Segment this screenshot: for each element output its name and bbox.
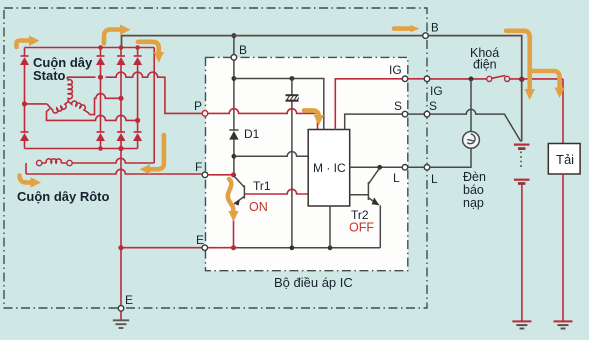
wire: F-node sense to M.IC (hump over resistor leg) [234,152,308,157]
stator coil phase C (lower-right coil) [68,101,89,114]
switch Khoá điện (ignition switch) [487,76,510,82]
wire: rectifier positive top rail [25,47,155,49]
node S (regulator edge) [402,111,408,117]
flow arrow down to brush wire [138,42,164,63]
svg-text:B: B [239,43,247,57]
flow arrow at rotor coil [20,176,42,188]
wire: switch to B junction and on to load [510,78,563,80]
junction phase C / leg2 [118,96,123,101]
svg-text:OFF: OFF [349,221,374,235]
wire: F to Tr1 collector junction [208,174,234,176]
svg-text:ON: ON [249,200,268,214]
flow arrow through Tr1 (ON) [228,179,239,222]
svg-text:S: S [429,99,437,113]
svg-text:L: L [431,172,438,186]
junction neutral / leg3 [135,118,140,123]
wire: M.IC ground pin [329,206,331,248]
wire: IG circuit from boundary to switch [430,78,487,80]
junction B / IG / battery / load [519,77,524,82]
junction resistor branch [290,76,295,81]
node B (regulator) [231,55,237,61]
flow arrow on B wire toward battery [394,25,420,32]
wire: rectifier left leg (phase B leg) [24,48,26,149]
flow arrow P wire into M.IC [304,110,324,125]
junction B / divider branch [232,76,237,81]
wire: rotor top wire to brush [37,158,155,163]
rotor field coil [46,159,61,163]
wire: neutral tap to leg 3 (humps over legs 1,2) [47,109,138,121]
wire: battery negative to ground [521,185,523,321]
wire: top branch to M.IC (B supply) [234,79,324,130]
wire: Tr2 emitter to E rail [379,205,381,248]
svg-text:P: P [194,99,202,113]
stator coil phase B (lower-left coil) [47,102,68,113]
wire: rectifier negative bottom rail [25,148,138,150]
diode bottom-left of rectifier [20,132,29,141]
diode top leg1 [96,56,105,65]
RIGHT SIDE [122,33,581,329]
svg-text:IG: IG [389,63,402,77]
junction phase A / leg1 [98,75,103,80]
ground E [113,320,129,328]
wire: ignition feed from B junction down to battery positive [521,79,523,141]
svg-text:D1: D1 [244,127,260,141]
junction dots on bottom rail [98,146,103,151]
wire: S sense to battery positive (hump over lamp wire) [430,109,521,141]
wire: IG feed into M.IC [335,79,402,130]
wire: B output line to battery [122,36,522,77]
junction Tr2 collector / L wire [377,165,382,170]
wire: lamp feed vertical [470,79,472,132]
slip ring right [67,160,72,165]
node IG (regulator edge) [402,76,408,82]
slip ring left [37,160,42,165]
op-amp block M.IC [308,130,350,207]
wire: phase C to leg 2 (hump over leg1) [90,94,121,115]
svg-text:Tr1: Tr1 [253,179,271,193]
svg-text:F: F [195,160,202,174]
wire: L link across boundary [408,166,424,168]
alternator enclosure dash-dot border [4,8,427,308]
wire: Tr1 base drive from M.IC (hump over resistor leg) [245,189,309,194]
flow arrow at stator left [17,36,40,48]
node E (regulator) [202,245,208,251]
junction B line tap [231,33,236,38]
wire: load to ground [562,174,564,321]
node L (regulator edge) [402,165,408,171]
battery [514,145,530,184]
IC BOX INTERNALS [202,33,430,250]
svg-text:Bộ điều áp IC: Bộ điều áp IC [274,275,353,290]
diode bottom leg3 [133,132,142,141]
junction phase B / left leg [22,101,27,106]
voltage regulator dashed box (Bộ điều áp IC) [206,57,408,270]
flow arrow into rotor wire [140,135,164,175]
svg-text:Cuộn dây Rôto: Cuộn dây Rôto [17,189,109,204]
wire: lamp bottom to L node [430,148,471,167]
wire: L lamp drive from M.IC [350,166,403,168]
flow arrow B wire down into battery [506,31,535,100]
diode top-left of rectifier [20,56,29,65]
junction D1 anode / M.IC sense [232,154,237,159]
ORANGE ARROWS [17,25,565,222]
node E (alternator case) [118,306,124,312]
wire: load feed down to Tai box [562,79,564,144]
wire: rotor left end down [25,163,27,174]
node B (alternator boundary) [423,33,429,39]
svg-text:IG: IG [430,84,443,98]
stator coil phase A (top coil) [67,77,72,101]
node F [202,172,208,178]
svg-text:điện: điện [473,58,497,72]
diode top leg2 [117,56,126,65]
wire: IG link across boundary [408,78,424,80]
wire: phase B to left leg [25,103,48,105]
svg-text:E: E [196,233,204,247]
svg-text:nạp: nạp [463,196,484,210]
wire: S sense into M.IC [345,114,403,129]
junction lamp feed [469,77,474,82]
junction resistor / E rail [290,245,295,250]
ground (battery) [512,321,531,328]
wire: rectifier leg 3 [137,48,139,149]
ground (load) [554,321,573,328]
wire: phase A tap to P (humps over legs 2,3 and brush wire) [67,72,203,113]
node L (alternator boundary) [424,165,430,171]
wire: rectifier leg 2 (goes down to E ground) [120,48,122,321]
diode bottom leg1 [96,132,105,141]
svg-text:B: B [431,23,439,35]
flow arrow branch into load [532,71,565,98]
wire: E rail dark part [238,247,380,249]
node IG (alternator boundary) [424,76,430,82]
node P [202,111,208,117]
junction F / D1 / Tr1 [231,172,236,177]
wire: B feed vertical inside regulator [233,36,235,175]
svg-text:Tải: Tải [556,152,574,167]
wire: Tr1 emitter to E rail [233,205,235,248]
STATOR-RECTIFIER [20,45,238,328]
wire: rectifier leg 1 [100,48,102,149]
diode top leg3 [133,56,142,65]
junction M.IC ground pin / E rail [328,245,333,250]
node S (alternator boundary) [424,111,430,117]
svg-text:L: L [393,171,400,185]
svg-text:Đèn: Đèn [463,170,486,184]
svg-text:M · IC: M · IC [313,161,346,175]
wire: rotor bottom wire to F terminal (hump over ground leg) [26,169,203,174]
flow arrow above rectifier [104,25,131,44]
svg-text:Stato: Stato [33,68,66,83]
diode D1 [229,130,238,140]
svg-text:E: E [125,293,133,307]
junction dots on top rail [98,45,103,50]
wire: P to M.IC (humps over B line and resistor leg) [208,109,318,130]
diode bottom leg2 [117,132,126,141]
svg-text:S: S [394,99,402,113]
resistor R (hatched) with leads [286,79,299,248]
transistor Tr1 [234,176,245,206]
wire: S link across boundary [408,113,424,115]
transistor Tr2 [350,168,380,205]
junction Tr1 emitter / E rail [231,245,236,250]
wire: B+ rail to rotor brush (right edge) [153,48,155,164]
load box Tải [548,144,580,175]
lamp Đèn báo nạp (charge warning lamp) [463,132,480,149]
junction E rail / ground leg [118,245,123,250]
svg-text:báo: báo [463,183,484,197]
wire: E rail red part [121,247,238,249]
